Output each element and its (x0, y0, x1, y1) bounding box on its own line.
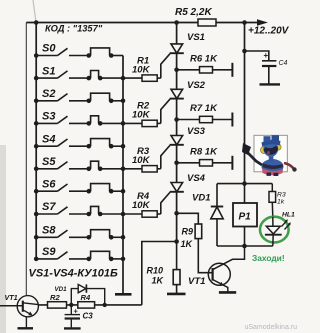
switch S1 (34, 71, 125, 81)
resistor R1 10K (123, 54, 170, 82)
svg-text:10K: 10K (132, 110, 151, 121)
cartoon mascot picture (242, 135, 297, 176)
+12..20V supply arrow (257, 19, 268, 25)
switch S5 (34, 161, 125, 171)
switch S0 (34, 48, 123, 58)
svg-text:S3: S3 (42, 111, 55, 123)
switch S9 (34, 251, 125, 261)
resistor R2 10K (123, 99, 170, 126)
thyristor VS3 (170, 136, 184, 145)
resistor R6 1K (177, 63, 233, 77)
switch S3 (34, 116, 125, 126)
resistor R4 (timer) (78, 302, 95, 308)
wire: relay bottom (217, 245, 273, 247)
switch S4 (34, 139, 125, 149)
resistor R2 (timer) (48, 302, 67, 308)
svg-text:HL1: HL1 (282, 212, 295, 219)
switch unit box edge (25, 23, 27, 296)
node: C3 junction (69, 303, 73, 307)
svg-text:VS1: VS1 (187, 32, 205, 43)
node: R4 output (103, 303, 107, 307)
svg-text:Заходи!: Заходи! (252, 253, 285, 263)
svg-text:R9: R9 (182, 227, 194, 237)
switch S8 (34, 230, 125, 240)
resistor R7 1K (177, 113, 233, 127)
terminal bar: bus bottom (115, 293, 132, 296)
transistor VT1 (output) (208, 246, 244, 292)
svg-text:S6: S6 (42, 178, 56, 190)
resistor R9 1K (177, 213, 213, 272)
resistor R10 1K (167, 242, 186, 294)
wire: timer stage rail (38, 304, 142, 306)
svg-text:10K: 10K (132, 64, 151, 75)
wire: thyristor chain (176, 23, 178, 242)
svg-text:R7 1K: R7 1K (190, 103, 218, 114)
transistor VT1 (timer stage) (0, 296, 38, 329)
svg-text:R2: R2 (50, 293, 60, 302)
svg-text:R8 1K: R8 1K (190, 147, 218, 158)
svg-text:uSamodelkina.ru: uSamodelkina.ru (244, 324, 297, 331)
svg-text:VT1: VT1 (5, 293, 18, 302)
svg-text:10K: 10K (132, 200, 151, 211)
resistor R4 10K (123, 192, 170, 217)
svg-text:1K: 1K (181, 239, 194, 249)
svg-text:+12..20V: +12..20V (248, 26, 290, 37)
svg-text:R10: R10 (147, 266, 164, 276)
svg-text:+: + (264, 51, 269, 60)
node: VS4 cathode junction (174, 211, 179, 216)
node: VS1 cathode junction (174, 68, 179, 73)
svg-text:R5 2,2K: R5 2,2K (175, 7, 212, 18)
LED HL1 (260, 217, 291, 246)
wire: top supply rail (26, 22, 258, 24)
wire: left bus (35, 23, 37, 259)
svg-text:VD1: VD1 (192, 193, 210, 204)
svg-text:VS1-VS4-КУ101Б: VS1-VS4-КУ101Б (29, 268, 118, 280)
svg-text:VS4: VS4 (187, 173, 206, 184)
node: anode tap on supply (174, 20, 179, 25)
wire: +V rail to relay (244, 23, 246, 184)
svg-text:S7: S7 (42, 201, 56, 213)
svg-text:+: + (74, 307, 79, 316)
svg-text:S2: S2 (42, 88, 55, 100)
svg-text:10K: 10K (132, 155, 151, 166)
wire: cropped stub top-left (33, 0, 36, 23)
svg-text:C3: C3 (83, 312, 94, 321)
thyristor VS4 (170, 183, 184, 192)
node: left bus / supply junction (34, 20, 39, 25)
svg-text:VS2: VS2 (187, 80, 206, 91)
node: VS3 cathode junction (174, 161, 179, 166)
svg-text:S1: S1 (42, 65, 55, 77)
svg-text:S4: S4 (42, 133, 55, 145)
svg-text:S8: S8 (42, 225, 56, 237)
svg-text:S5: S5 (42, 156, 56, 168)
svg-text:VT1: VT1 (188, 276, 205, 287)
diode VD1 (211, 184, 223, 246)
node: VS2 cathode junction (174, 117, 179, 122)
resistor R5 (198, 19, 216, 26)
relay P1 (233, 184, 257, 246)
svg-text:R4: R4 (81, 293, 91, 302)
node: R10 junction (174, 239, 179, 244)
thyristor VS2 (170, 89, 184, 98)
svg-text:1k: 1k (277, 199, 285, 206)
capacitor C4 (245, 51, 281, 84)
resistor R3 10K (123, 145, 170, 172)
node: C4 tap (242, 49, 247, 54)
svg-text:VD1: VD1 (55, 286, 68, 293)
wire: code-unit output riser (142, 242, 177, 305)
wire: relay top rail (217, 183, 272, 185)
switch S2 (34, 93, 125, 103)
switch S7 (34, 206, 125, 216)
svg-text:1K: 1K (152, 276, 165, 286)
svg-text:КОД : "1357": КОД : "1357" (45, 24, 103, 34)
capacitor C3 (64, 305, 81, 329)
svg-text:S0: S0 (42, 43, 56, 55)
thyristor VS1 (170, 44, 184, 53)
svg-text:C4: C4 (279, 60, 288, 67)
resistor R3 1k (269, 184, 276, 217)
svg-text:R6 1K: R6 1K (190, 54, 218, 65)
diode VD1 (timer) (71, 284, 104, 305)
wire: switch output bus (122, 56, 124, 294)
switch S6 (34, 184, 125, 194)
svg-text:S9: S9 (42, 246, 56, 258)
svg-text:VS3: VS3 (187, 126, 206, 137)
svg-text:R3: R3 (277, 192, 286, 199)
resistor R8 1K (177, 156, 233, 170)
svg-text:Р1: Р1 (239, 212, 252, 223)
